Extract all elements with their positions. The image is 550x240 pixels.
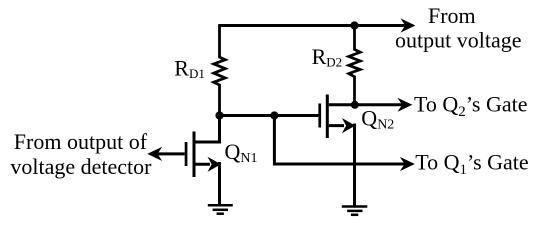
channel bar <box>193 132 196 178</box>
source arrow <box>208 157 221 172</box>
gate bar <box>185 142 188 166</box>
node branch to Q1 gate <box>270 111 278 119</box>
label From output of voltage detector <box>10 129 152 179</box>
gate bar <box>318 104 321 128</box>
drain lead <box>329 103 355 106</box>
wire top rail <box>220 24 408 27</box>
svg-text:To Q2’s Gate: To Q2’s Gate <box>414 91 528 120</box>
channel bar <box>326 95 329 139</box>
node QN2 drain junction <box>351 101 359 109</box>
transistor QN2 <box>318 95 355 207</box>
ground QN1 <box>208 205 233 214</box>
arrow to Q1 gate <box>400 157 415 171</box>
drain lead <box>196 116 220 143</box>
resistor RD1 <box>214 24 225 115</box>
svg-text:From: From <box>428 3 476 28</box>
source arrow <box>342 118 355 133</box>
label From output voltage <box>395 3 521 53</box>
source lead <box>329 124 355 207</box>
wire QN1 gate lead <box>157 152 185 155</box>
svg-text:output voltage: output voltage <box>395 28 521 53</box>
arrow from voltage detector <box>147 147 162 161</box>
svg-text:voltage detector: voltage detector <box>10 154 152 179</box>
wire branch to Q1 gate <box>274 116 406 165</box>
svg-text:From output of: From output of <box>14 129 148 154</box>
source lead <box>196 162 220 205</box>
node top of RD2 <box>350 21 358 29</box>
wire to Q2 gate arrow <box>355 103 405 106</box>
transistor QN1 <box>185 116 221 206</box>
node RD1 bottom junction <box>215 111 223 119</box>
svg-text:To Q1’s Gate: To Q1’s Gate <box>415 149 529 178</box>
resistor RD2 <box>349 26 360 105</box>
arrow to output voltage <box>401 18 416 32</box>
arrow to Q2 gate <box>397 98 412 112</box>
ground QN2 <box>342 207 368 215</box>
wire QN1 drain to QN2 gate <box>220 114 319 117</box>
